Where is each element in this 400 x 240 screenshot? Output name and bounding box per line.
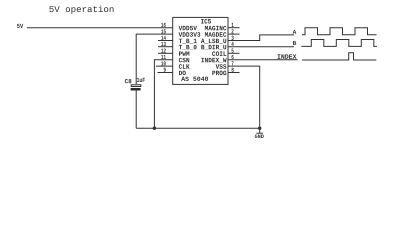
pin number 6 bbox=[232, 55, 234, 59]
pin number 5 bbox=[232, 49, 234, 53]
pin number 9 bbox=[164, 68, 166, 72]
wire C8 to ground rail bbox=[135, 91, 137, 129]
IC name IC5 label bbox=[201, 19, 211, 24]
ground GND label bbox=[255, 134, 264, 138]
pin 10 CLK name label bbox=[179, 64, 190, 69]
pin 9 DO name label bbox=[179, 71, 186, 76]
pin number 12 bbox=[161, 48, 166, 52]
pin number 3 bbox=[231, 36, 233, 40]
pin number 15 bbox=[161, 29, 166, 33]
pin 5 stub bbox=[228, 52, 240, 54]
pin 8 stub bbox=[228, 72, 240, 74]
IC U1 AS5040 body bbox=[173, 17, 228, 84]
pin 2 stub bbox=[228, 33, 240, 35]
capacitor C8 name label bbox=[125, 79, 132, 83]
waveform B quadrature output bbox=[301, 40, 377, 47]
pin number 1 bbox=[232, 23, 234, 27]
pin 6 INDEX_W name label bbox=[201, 58, 226, 63]
pin number 7 bbox=[232, 61, 234, 65]
pin 10 stub bbox=[156, 65, 173, 67]
pin 9 stub bbox=[158, 72, 173, 74]
capacitor C8 top plate bbox=[131, 85, 141, 87]
wire pin 6 to node INDEX bbox=[228, 59, 298, 61]
pin 11 CSN name label bbox=[179, 58, 189, 63]
waveform A quadrature output bbox=[302, 28, 377, 35]
pin 1 stub bbox=[228, 27, 240, 29]
pin 8 PROG name label bbox=[212, 71, 226, 76]
pin 14 stub bbox=[158, 40, 173, 42]
node INDEX label bbox=[278, 54, 297, 58]
pin 5 COIL name label bbox=[212, 51, 226, 56]
pin number 11 bbox=[161, 55, 166, 59]
pin number 4 bbox=[231, 42, 233, 46]
pin number 10 bbox=[161, 61, 166, 65]
wire pin 4 to node B bbox=[228, 46, 294, 48]
capacitor C8 value 1uF label bbox=[137, 78, 145, 82]
ground rail wire bbox=[136, 127, 260, 129]
wire pin 11 CSN to ground rail bbox=[154, 60, 172, 129]
pin 4 B_DIR_U name label bbox=[201, 45, 226, 50]
pin number 8 bbox=[232, 68, 234, 72]
pin 15 VDD3V3 name label bbox=[179, 32, 201, 37]
node A label bbox=[293, 30, 297, 34]
junction dot VSS at rail bbox=[258, 127, 261, 130]
pin number 2 bbox=[232, 29, 234, 33]
pin 3 A_LSB_U name label bbox=[201, 39, 226, 44]
wire 5V to pin 16 bbox=[27, 27, 173, 29]
pin 14 T_B_1 name label bbox=[179, 39, 197, 44]
pin 12 PWM name label bbox=[179, 51, 189, 55]
pin 7 VSS name label bbox=[216, 64, 227, 69]
pin 1 MAGINC name label bbox=[205, 26, 227, 31]
waveform INDEX output bbox=[302, 53, 376, 60]
wire pin 7 VSS to ground bbox=[228, 66, 260, 133]
pin 12 stub bbox=[158, 52, 173, 54]
pin 13 stub bbox=[158, 46, 173, 48]
pin number 13 bbox=[161, 42, 166, 46]
pin 16 VDD5V name label bbox=[179, 26, 197, 30]
pin number 16 bbox=[161, 23, 166, 27]
capacitor C8 bottom plate bbox=[131, 88, 141, 91]
ground symbol bar bbox=[256, 132, 263, 134]
IC value AS 5040 label bbox=[181, 77, 208, 81]
wire pin 3 to node A bbox=[228, 35, 294, 41]
pin 13 T_B_0 name label bbox=[179, 45, 197, 50]
junction dot CSN at rail bbox=[153, 127, 156, 130]
title 5V operation bbox=[49, 6, 113, 14]
wire pin 15 to capacitor C8 bbox=[136, 34, 173, 84]
pin number 14 bbox=[161, 36, 166, 40]
pin 2 MAGDEC name label bbox=[205, 32, 227, 37]
node 5V label bbox=[17, 24, 23, 28]
node B label bbox=[293, 41, 296, 45]
